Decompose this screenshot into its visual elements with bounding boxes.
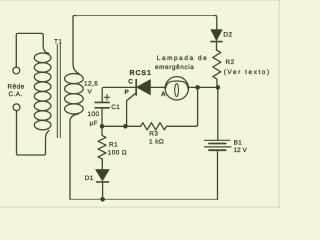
svg-text:P: P	[125, 89, 130, 96]
wire bottom rail	[70, 198, 218, 200]
svg-text:12 V: 12 V	[234, 147, 248, 154]
svg-text:D2: D2	[223, 32, 232, 39]
plus sign of C1	[104, 95, 109, 100]
junction C1 bottom node	[100, 124, 105, 129]
wire C1 top node to SCR cathode	[102, 87, 136, 101]
svg-text:1 kΩ: 1 kΩ	[149, 139, 164, 146]
svg-text:R2: R2	[226, 59, 235, 66]
svg-text:C.A.: C.A.	[9, 91, 23, 98]
wire R3 right to lamp node	[166, 87, 197, 126]
capacitor C1	[95, 102, 109, 126]
svg-text:Lampada de: Lampada de	[157, 55, 209, 62]
svg-text:C: C	[128, 79, 133, 86]
svg-text:100 Ω: 100 Ω	[108, 150, 127, 157]
SCR RCS1	[127, 80, 166, 127]
transformer T1 primary	[34, 53, 51, 130]
transformer T1 secondary	[65, 74, 84, 114]
svg-text:R3: R3	[149, 131, 158, 138]
svg-text:T1: T1	[54, 39, 62, 46]
svg-text:µF: µF	[90, 120, 99, 127]
svg-text:emergência: emergência	[155, 64, 194, 71]
svg-text:(Ver texto): (Ver texto)	[224, 69, 271, 76]
wire top rail	[76, 15, 215, 17]
resistor R1	[98, 126, 106, 161]
wire secondary top lead	[73, 16, 79, 74]
wire gate node horizontal	[102, 125, 141, 127]
wire AC bottom lead	[17, 111, 49, 155]
svg-text:R1: R1	[109, 142, 118, 149]
junction R2 bottom node	[216, 85, 221, 90]
svg-text:C1: C1	[111, 104, 120, 111]
svg-text:D1: D1	[85, 175, 94, 182]
svg-text:V: V	[88, 89, 93, 96]
terminal bottom	[13, 104, 20, 111]
wire battery bottom lead	[217, 150, 219, 199]
junction D1 bottom on rail	[100, 197, 105, 202]
edge shading	[0, 0, 280, 208]
wire top rail right corner down to D2	[215, 16, 217, 30]
terminal top	[13, 67, 20, 74]
junction gate node	[123, 124, 128, 129]
resistor R2	[213, 50, 221, 87]
transformer core	[57, 45, 60, 138]
svg-text:B1: B1	[234, 140, 243, 147]
wire battery top lead	[217, 87, 219, 139]
battery B1	[205, 140, 231, 150]
wire lamp to right column	[188, 86, 218, 88]
svg-text:RCS1: RCS1	[130, 70, 152, 77]
resistor R3	[141, 123, 167, 130]
svg-text:A: A	[161, 91, 166, 98]
diode D2	[211, 30, 222, 51]
svg-text:Rêde: Rêde	[8, 84, 25, 91]
lamp	[165, 77, 188, 100]
diode D1	[96, 159, 109, 200]
wire AC top lead	[16, 33, 49, 67]
svg-text:100: 100	[88, 111, 100, 118]
svg-text:12,6: 12,6	[84, 81, 98, 88]
wire secondary bottom lead down to bottom rail	[70, 114, 79, 200]
junction lamp right node	[195, 85, 200, 90]
